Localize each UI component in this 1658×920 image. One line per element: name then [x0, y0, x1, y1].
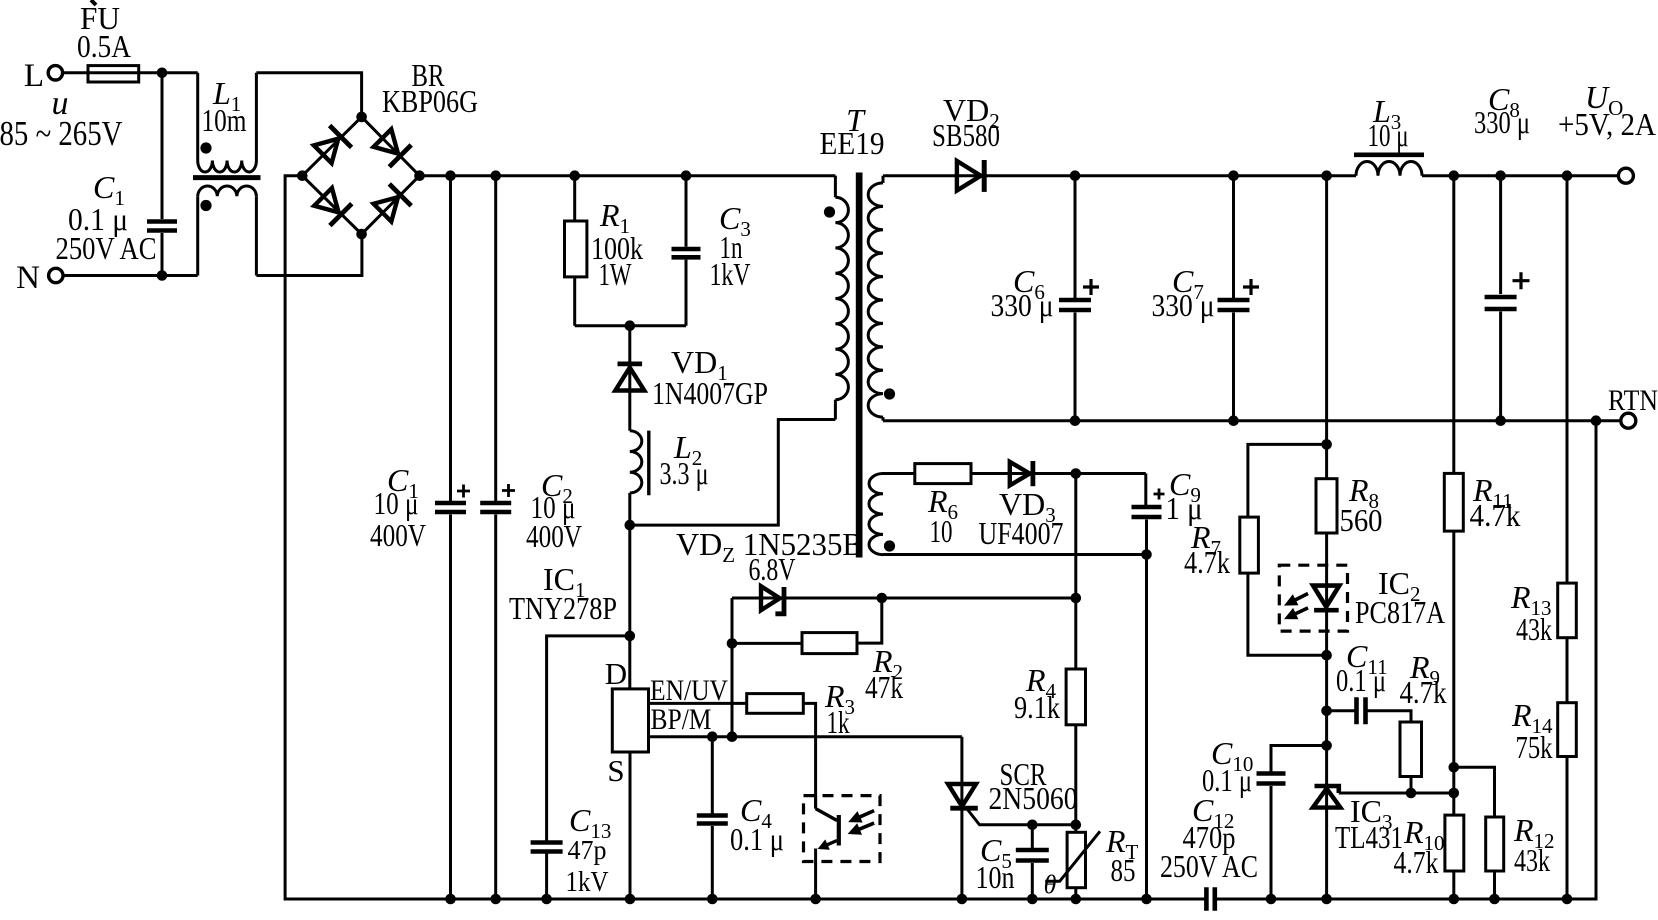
diode VD3 UF4007	[1010, 462, 1030, 486]
wire secondary to VD2	[883, 174, 1356, 177]
capacitor C12 470p 250VAC Y-cap	[1206, 887, 1214, 911]
junction C3 top	[681, 170, 692, 181]
resistor R9 4.7k	[1400, 722, 1422, 777]
LED of IC2 PC817A (dashed box)	[1279, 565, 1347, 631]
wire aux bottom return	[883, 553, 1147, 556]
wire primary DC+ rail	[420, 174, 836, 177]
wire bias node to zener line	[1074, 474, 1077, 599]
wire drain to primary bottom	[630, 420, 836, 526]
svg-text:S: S	[607, 753, 624, 788]
capacitor C6 330u	[1074, 176, 1077, 298]
wire R3 to opto collector	[803, 703, 815, 808]
opto emitter with arrow	[825, 841, 837, 846]
bridge diode top-left	[314, 139, 338, 163]
phase dot L1 upper	[200, 142, 211, 153]
svg-text:43k: 43k	[1516, 611, 1552, 647]
resistor R11 4.7k	[1452, 176, 1455, 474]
svg-text:3.3 μ: 3.3 μ	[660, 455, 709, 491]
wire RTN rail	[883, 419, 1621, 422]
junction R7 tap	[1321, 439, 1332, 450]
opto base bar	[837, 815, 841, 846]
svg-text:SB580: SB580	[932, 117, 1000, 153]
svg-text:75k: 75k	[1516, 729, 1553, 765]
opto light arrows	[857, 811, 874, 819]
wire L1 to bridge top	[256, 73, 361, 112]
phase dot secondary	[884, 388, 895, 399]
wire D node to C13	[547, 636, 630, 841]
inductor L2 3.3u	[630, 431, 642, 493]
thermistor RT 85	[1074, 825, 1077, 833]
junction R9 on ref	[1406, 788, 1417, 799]
wire N to L1	[63, 274, 198, 277]
junction branch/R2	[727, 638, 738, 649]
junction R7 bottom	[1321, 650, 1332, 661]
stray cropped mark above fuse	[91, 0, 96, 5]
svg-text:UF4007: UF4007	[979, 515, 1064, 551]
capacitor C11 0.1u	[1327, 709, 1355, 712]
wire aux return to bus	[1145, 555, 1148, 900]
svg-text:250V AC: 250V AC	[1160, 848, 1258, 884]
junction R12 tap	[1449, 762, 1460, 773]
svg-text:10 μ: 10 μ	[374, 485, 419, 521]
wire drain down to IC1 D	[628, 525, 631, 689]
capacitor C1 bulk 10u 400V	[449, 176, 452, 501]
junction ref node	[1449, 788, 1460, 799]
junctions on +5V rail	[1070, 170, 1081, 181]
opto collector	[814, 796, 817, 809]
junction C11 tap	[1321, 706, 1332, 717]
fuse FU 0.5A	[88, 66, 139, 82]
svg-text:4.7k: 4.7k	[1400, 674, 1447, 710]
junction C2 top	[490, 170, 501, 181]
transformer core	[856, 173, 863, 558]
SCR 2N5060	[960, 737, 963, 899]
svg-text:400V: 400V	[370, 517, 426, 553]
resistor R14 75k	[1566, 638, 1569, 703]
capacitor C1 input X-cap 0.1u 250VAC	[161, 73, 164, 219]
junctions on RTN rail	[1070, 415, 1081, 426]
transformer secondary winding	[882, 176, 885, 183]
capacitor C7 330u	[1232, 176, 1235, 298]
wire bridge minus to primary ground bus	[285, 176, 1206, 899]
svg-text:L: L	[24, 58, 44, 94]
wire L-fuse-node	[63, 71, 198, 74]
wire R1/C3 join	[575, 324, 686, 327]
svg-text:85 ~ 265V: 85 ~ 265V	[0, 114, 123, 153]
capacitor C9 1u	[1144, 474, 1147, 506]
svg-text:RTN: RTN	[1608, 384, 1658, 417]
svg-text:EE19: EE19	[820, 125, 885, 161]
svg-text:4.7k: 4.7k	[1394, 844, 1439, 880]
resistor R12 43k	[1454, 767, 1495, 817]
bridge diode top-right	[374, 129, 398, 153]
terminal RTN	[1621, 413, 1636, 428]
svg-text:9.1k: 9.1k	[1014, 689, 1060, 725]
pin EN/UV wire	[649, 702, 747, 705]
capacitor C13 47p 1kV	[531, 843, 563, 852]
transistor: IC2 photo-transistor side (dashed box)	[804, 796, 881, 862]
junction N/C1	[157, 270, 168, 281]
svg-text:330 μ: 330 μ	[1474, 104, 1530, 140]
svg-text:1W: 1W	[599, 256, 633, 292]
svg-text:10m: 10m	[202, 102, 247, 138]
wire VDZ branch vertical	[731, 598, 734, 737]
shunt regulator IC3 TL431	[1315, 786, 1339, 793]
SCR gate wire	[968, 810, 1076, 825]
resistor R8 560	[1316, 479, 1337, 533]
svg-text:1k: 1k	[827, 704, 850, 740]
junction C10 tap	[1321, 740, 1332, 751]
junction bridge right	[414, 170, 425, 181]
wire aux top to R6	[883, 472, 915, 475]
LED light arrows	[1292, 594, 1308, 602]
capacitor C3 1n 1kV	[685, 176, 688, 247]
svg-text:BP/M: BP/M	[651, 703, 712, 736]
terminal Uo	[1618, 168, 1633, 183]
junction zener/R2 riser	[877, 593, 888, 604]
resistor R1 100k 1W	[573, 176, 576, 221]
inductor L3 10u	[1356, 162, 1422, 176]
svg-text:10n: 10n	[976, 859, 1015, 895]
wire L1 to bridge bottom	[256, 234, 362, 275]
resistor R4 9.1k	[1074, 598, 1077, 669]
junction fuse/C1	[157, 68, 168, 79]
junctions on ground buses	[445, 894, 456, 905]
junction C5 tap	[1027, 820, 1038, 831]
junction bias node	[1071, 468, 1082, 479]
svg-text:+5V, 2A: +5V, 2A	[1558, 106, 1656, 142]
phase dot primary	[824, 206, 835, 217]
junction C1 top	[445, 170, 456, 181]
resistor R6 10	[915, 464, 971, 484]
resistor R7 4.7k	[1248, 444, 1327, 517]
svg-text:KBP06G: KBP06G	[382, 83, 478, 119]
junction branch/BPM	[727, 731, 738, 742]
svg-text:85: 85	[1111, 852, 1136, 888]
phase dot L1 lower	[200, 200, 211, 211]
wire TL431 ref line	[1339, 792, 1454, 795]
junction bridge top	[356, 112, 367, 123]
svg-text:0.5A: 0.5A	[77, 28, 131, 64]
svg-text:47p: 47p	[568, 835, 607, 865]
svg-text:6.8V: 6.8V	[749, 551, 796, 587]
capacitor C10 0.1u	[1271, 746, 1327, 772]
svg-text:0.1 μ: 0.1 μ	[1336, 662, 1386, 698]
svg-text:43k: 43k	[1514, 842, 1550, 878]
pin BP/M wire	[649, 735, 962, 738]
bridge rectifier BR KBP06G	[302, 117, 419, 234]
resistor R13 43k	[1566, 176, 1569, 583]
resistor R2 47k	[732, 642, 802, 645]
svg-text:1kV: 1kV	[566, 866, 609, 898]
junction bridge bottom	[356, 229, 367, 240]
svg-text:400V: 400V	[526, 518, 582, 554]
IC1 TNY278P body	[612, 689, 648, 752]
capacitor C5 10n	[1031, 825, 1034, 848]
capacitor C4 0.1u	[711, 737, 714, 814]
junction gate/R4 riser	[1071, 820, 1082, 831]
junction D branch	[625, 631, 636, 642]
junction C4 tap	[707, 731, 718, 742]
transformer T EE19 primary winding	[834, 176, 837, 198]
svg-text:N: N	[16, 260, 40, 296]
svg-text:4.7k: 4.7k	[1470, 497, 1521, 533]
svg-text:4.7k: 4.7k	[1184, 544, 1230, 580]
junction R1 top	[569, 170, 580, 181]
phase dot auxiliary	[884, 540, 895, 551]
terminal N	[49, 268, 63, 282]
resistor R3 1k	[747, 694, 804, 714]
svg-text:PC817A: PC817A	[1355, 594, 1445, 630]
svg-text:1N4007GP: 1N4007GP	[652, 375, 768, 411]
junction bridge left	[297, 170, 308, 181]
svg-text:330 μ: 330 μ	[991, 287, 1054, 323]
svg-text:0.1 μ: 0.1 μ	[730, 821, 784, 857]
bridge diode bottom-right	[374, 197, 398, 221]
terminal L	[48, 66, 62, 80]
bridge diode bottom-left	[314, 188, 338, 212]
svg-text:250V AC: 250V AC	[56, 230, 157, 266]
resistor R10 4.7k	[1445, 815, 1464, 871]
transformer auxiliary winding	[869, 474, 883, 555]
capacitor C8 330u	[1499, 176, 1502, 294]
diode VD1 1N4007GP	[628, 326, 631, 431]
junction aux return / C9	[1141, 549, 1152, 560]
junction zener end at R4 riser	[1071, 593, 1082, 604]
capacitor C2 10u 400V	[494, 176, 497, 501]
svg-text:47k: 47k	[865, 669, 903, 705]
diode VD2 SB580	[957, 161, 981, 191]
zener diode VDZ 1N5235B 6.8V	[732, 597, 1076, 600]
svg-text:330 μ: 330 μ	[1152, 287, 1215, 323]
junction drain node	[625, 520, 636, 531]
wire S to ground bus	[629, 752, 632, 899]
wire secondary ground bus	[1215, 421, 1596, 899]
svg-text:θ: θ	[1044, 870, 1057, 899]
inductor L1 10m common-mode choke	[196, 73, 199, 161]
svg-text:TNY278P: TNY278P	[509, 590, 617, 626]
svg-text:1kV: 1kV	[710, 256, 751, 292]
wire L3 to output terminal	[1422, 174, 1618, 177]
svg-text:2N5060: 2N5060	[989, 780, 1078, 816]
svg-text:10: 10	[930, 513, 953, 549]
svg-text:D: D	[605, 656, 627, 691]
junction clamp node	[625, 320, 636, 331]
svg-text:10 μ: 10 μ	[1368, 117, 1409, 153]
wire R8 riser	[1325, 176, 1328, 479]
svg-text:560: 560	[1340, 502, 1383, 538]
